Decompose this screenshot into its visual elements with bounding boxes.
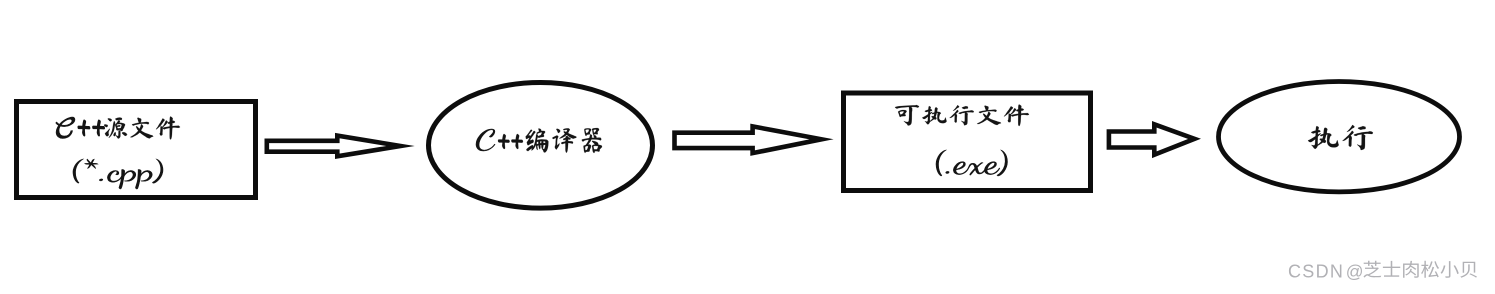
svg-text:CSDN: CSDN: [1288, 261, 1344, 281]
text 编译器 ellipse1: [526, 128, 602, 153]
text 可执行文件 box2: [895, 105, 1029, 126]
text (*.cpp) box1: [73, 159, 163, 189]
arrow 3: [1109, 124, 1195, 155]
box: C++ source file: [17, 102, 256, 198]
text (.exe) box2: [936, 150, 1008, 176]
ellipse: execute: [1219, 82, 1460, 192]
text C ellipse1: [476, 129, 495, 151]
text ++ box1: [78, 119, 106, 136]
arrow 2: [675, 126, 822, 153]
text C (script) box1: [56, 117, 75, 139]
ellipse: C++ compiler: [429, 83, 653, 209]
arrow 1: [267, 136, 401, 157]
text 执行 ellipse2: [1308, 125, 1373, 150]
watermark CJK: [1363, 261, 1477, 278]
svg-text:@: @: [1346, 261, 1364, 281]
box: executable file: [844, 93, 1091, 191]
text 源文件 box1: [104, 117, 180, 140]
text ++ ellipse1: [498, 134, 523, 149]
